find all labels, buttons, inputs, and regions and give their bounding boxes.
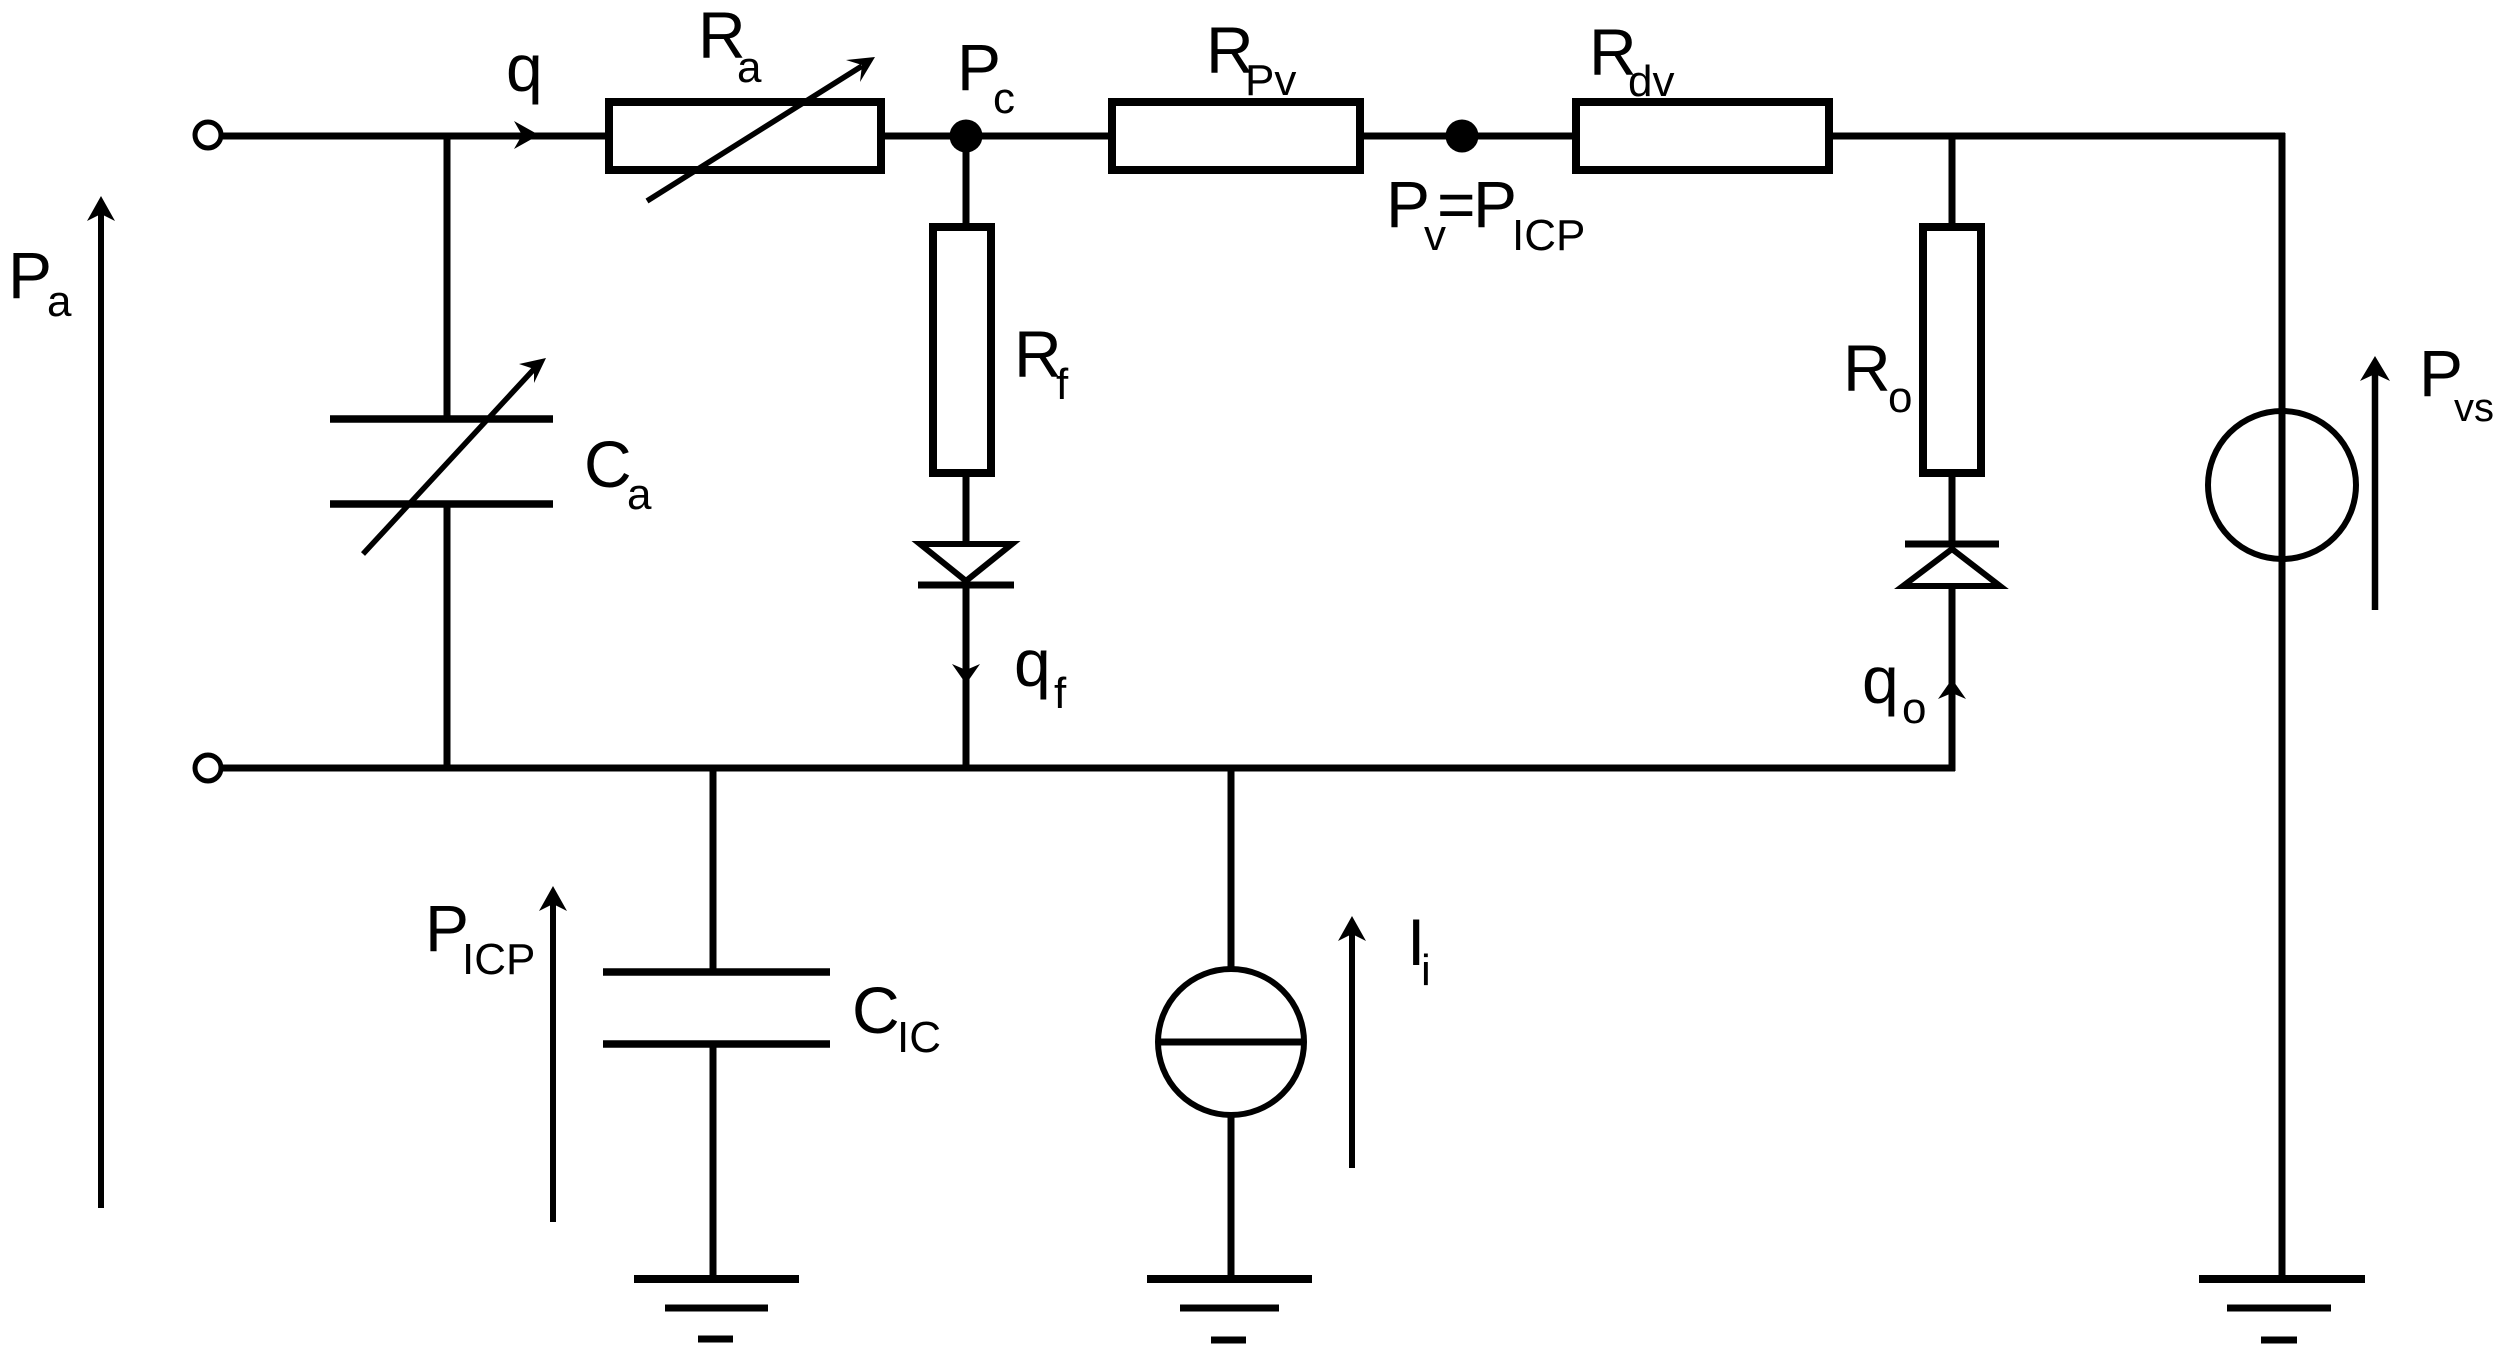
svg-text:i: i: [1421, 946, 1431, 995]
svg-text:a: a: [627, 470, 652, 519]
arrow Ii (upward): [1338, 916, 1366, 1168]
resistor RPv: [1112, 102, 1360, 170]
variable arrow of Ca: [363, 358, 546, 554]
wire bottom rail: [221, 765, 1955, 772]
wire top from input terminal to Ra: [221, 133, 609, 140]
svg-text:C: C: [852, 973, 900, 1047]
capacitor CIC bottom plate: [603, 1040, 830, 1048]
svg-text:o: o: [1902, 684, 1926, 733]
resistor Ra (variable): [609, 102, 881, 170]
wire current source to ground: [1228, 1113, 1235, 1279]
wire Ra to RPv through node Pc: [881, 133, 1112, 140]
ground below current source: [1147, 1279, 1312, 1340]
wire Ro to diode Do: [1949, 470, 1956, 546]
svg-text:f: f: [1056, 360, 1069, 409]
wire vertical branch from top wire to Ca: [444, 133, 451, 419]
svg-text:c: c: [993, 74, 1015, 123]
svg-text:dv: dv: [1628, 57, 1674, 106]
capacitor Ca bottom plate: [330, 500, 553, 508]
arrowhead of flow qf (downward): [952, 664, 980, 684]
arrowhead of flow q on top wire: [514, 121, 539, 149]
svg-text:IC: IC: [897, 1013, 941, 1062]
capacitor CIC top plate: [603, 968, 830, 976]
diode Do (cathode bar): [1905, 541, 1999, 548]
svg-text:f: f: [1054, 669, 1067, 718]
diode Do (triangle pointing up): [1903, 549, 2000, 586]
wire CIC bottom plate to ground: [710, 1044, 717, 1279]
current source Ii (circle with horizontal bar): [1158, 969, 1304, 1115]
svg-text:a: a: [47, 277, 72, 326]
svg-text:P: P: [1473, 167, 1517, 241]
resistor Rf: [933, 227, 991, 473]
wire right vertical from top-right corner down to ground: [2279, 133, 2286, 1279]
wire diode Do down to bottom rail: [1949, 586, 1956, 771]
wire vertical from node Pc down to Rf: [963, 136, 970, 230]
svg-text:C: C: [584, 427, 632, 501]
variable arrow of Ra: [647, 57, 875, 201]
diode Df (triangle pointing down): [920, 544, 1012, 581]
svg-text:q: q: [1014, 626, 1051, 700]
arrow Pvs (upward): [2360, 356, 2390, 610]
wire Rdv to top-right corner: [1829, 133, 2285, 140]
wire diode Df down to bottom rail: [963, 585, 970, 771]
svg-text:vs: vs: [2454, 386, 2494, 430]
arrowhead of flow qo (upward): [1938, 679, 1966, 699]
terminal upper-left input: [195, 122, 221, 148]
capacitor Ca (variable) top plate: [330, 415, 553, 423]
svg-text:q: q: [506, 31, 543, 105]
pressure source Pvs (circle): [2208, 411, 2356, 559]
wire vertical branch from bottom rail down to CIC: [710, 768, 717, 972]
svg-text:R: R: [1014, 317, 1062, 391]
svg-text:a: a: [737, 43, 762, 92]
svg-text:R: R: [1843, 331, 1891, 405]
wire Rf to diode Df: [963, 470, 970, 548]
node Pc: [950, 120, 983, 153]
svg-text:Pv: Pv: [1245, 56, 1296, 105]
ground below CIC: [634, 1279, 799, 1339]
wire vertical branch from bottom rail down to current source Ii: [1228, 768, 1235, 972]
terminal lower-left: [195, 755, 221, 781]
wire RPv to Rdv through node Pv: [1360, 133, 1576, 140]
svg-text:ICP: ICP: [1512, 211, 1585, 260]
svg-text:q: q: [1862, 643, 1899, 717]
svg-text:=: =: [1437, 167, 1476, 241]
wire vertical branch down to Ro: [1949, 136, 1956, 230]
arrow Pa (upward, far left): [87, 196, 115, 1208]
arrow PICP (upward): [539, 886, 567, 1222]
wire Ca bottom plate down to bottom rail: [444, 504, 451, 771]
svg-text:ICP: ICP: [462, 935, 535, 984]
ground right: [2199, 1279, 2365, 1340]
node Pv: [1446, 120, 1479, 153]
svg-text:P: P: [8, 238, 52, 312]
label Pv=PICP: [1386, 167, 1585, 260]
resistor Ro: [1923, 227, 1981, 473]
svg-text:o: o: [1888, 373, 1912, 422]
resistor Rdv: [1576, 102, 1829, 170]
diode Df (cathode bar): [918, 582, 1014, 589]
